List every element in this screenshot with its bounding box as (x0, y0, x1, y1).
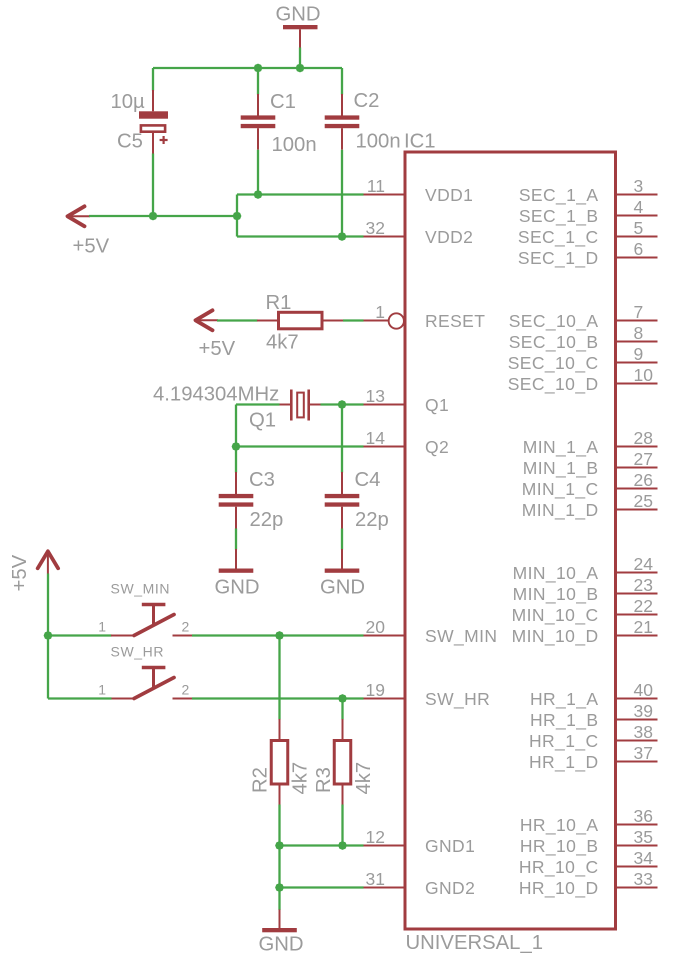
svg-text:1: 1 (98, 619, 106, 635)
svg-text:IC1: IC1 (404, 130, 436, 152)
label R3 value 4k7 (353, 762, 375, 795)
ground C3 GND symbol (219, 549, 254, 573)
pin 34 HR_10_C (right) (519, 848, 658, 878)
pin 5 SEC_1_C (right) (518, 218, 658, 248)
wire GND1 net (280, 844, 364, 846)
pin 39 HR_1_B (right) (530, 701, 658, 731)
wire Q2 net (236, 445, 364, 447)
label bottom GND (259, 934, 304, 956)
svg-text:R1: R1 (266, 292, 292, 314)
svg-text:8: 8 (634, 323, 644, 343)
label IC1 value UNIVERSAL_1 (406, 932, 544, 954)
pin 21 MIN_10_D (right) (512, 617, 658, 647)
svg-text:12: 12 (366, 827, 385, 847)
svg-text:SEC_1_B: SEC_1_B (519, 206, 599, 227)
label R3 name (313, 767, 335, 793)
IC IC1 UNIVERSAL_1 body (405, 152, 616, 929)
svg-text:100n: 100n (356, 131, 401, 153)
pin 10 SEC_10_D (right) (508, 365, 658, 395)
svg-text:MIN_1_B: MIN_1_B (523, 458, 599, 479)
label +5V reset (199, 338, 236, 360)
pin 14 Q2 (left) (364, 428, 450, 457)
label R2 value 4k7 (290, 762, 312, 795)
pin 33 HR_10_D (right) (519, 869, 658, 899)
label SW_MIN pin 2 (182, 619, 190, 635)
wire VDD2 net (237, 235, 364, 237)
label Q1 frequency (153, 384, 279, 406)
svg-text:HR_1_A: HR_1_A (530, 689, 599, 710)
label C4 GND (320, 577, 365, 599)
svg-text:39: 39 (634, 701, 653, 721)
svg-text:23: 23 (634, 575, 653, 595)
junction Q1 / C4 (338, 400, 347, 409)
wire bottom GND drop (278, 888, 280, 911)
svg-text:7: 7 (634, 302, 644, 322)
wire C2 bottom (341, 150, 343, 237)
pin 9 SEC_10_C (right) (508, 344, 658, 374)
svg-text:HR_10_D: HR_10_D (519, 878, 599, 899)
svg-text:SW_HR: SW_HR (425, 689, 490, 710)
crystal Q1 (279, 390, 321, 421)
svg-text:25: 25 (634, 491, 653, 511)
svg-text:MIN_10_D: MIN_10_D (512, 626, 599, 647)
pin 38 HR_1_C (right) (529, 722, 658, 752)
svg-text:38: 38 (634, 722, 653, 742)
wire top supply bus (153, 67, 342, 69)
svg-text:GND: GND (276, 4, 321, 26)
pin 40 HR_1_A (right) (530, 680, 658, 710)
svg-text:GND2: GND2 (425, 878, 475, 898)
svg-text:34: 34 (634, 848, 654, 868)
svg-text:HR_10_A: HR_10_A (520, 815, 599, 836)
pin 1 RESET (left) (364, 302, 486, 331)
svg-text:26: 26 (634, 470, 653, 490)
svg-text:13: 13 (366, 386, 385, 406)
capacitor C4 (325, 472, 360, 529)
capacitor C2 (325, 94, 360, 150)
label C2 value 100n (356, 131, 401, 153)
label C3 value 22p (250, 509, 284, 531)
svg-text:33: 33 (634, 869, 653, 889)
svg-text:1: 1 (98, 682, 106, 698)
label C1 name (270, 91, 296, 113)
svg-text:Q1: Q1 (249, 410, 276, 432)
label SW_HR pin 1 (98, 682, 106, 698)
svg-text:GND: GND (215, 577, 260, 599)
wire RESET right (343, 319, 364, 321)
svg-text:2: 2 (182, 682, 190, 698)
svg-text:HR_1_B: HR_1_B (530, 710, 599, 731)
svg-text:+5V: +5V (199, 338, 236, 360)
ground GND top symbol (283, 25, 318, 48)
svg-text:VDD2: VDD2 (425, 227, 473, 247)
pin 35 HR_10_B (right) (520, 827, 658, 857)
svg-text:SEC_1_C: SEC_1_C (518, 227, 599, 248)
pin 20 SW_MIN (left) (364, 617, 498, 647)
svg-text:GND: GND (259, 934, 304, 956)
svg-text:SEC_10_D: SEC_10_D (508, 374, 599, 395)
svg-text:MIN_1_C: MIN_1_C (522, 479, 599, 500)
wire +5V rail (89, 215, 237, 217)
pin 22 MIN_10_C (right) (512, 596, 658, 626)
wire +5V column (47, 574, 49, 699)
svg-text:10µ: 10µ (111, 91, 146, 113)
label C3 name (249, 469, 275, 491)
svg-text:Q1: Q1 (425, 395, 449, 415)
svg-text:27: 27 (634, 449, 653, 469)
capacitor C3 (219, 472, 254, 529)
svg-text:SEC_10_B: SEC_10_B (509, 332, 599, 353)
label +5V rotated (9, 554, 31, 591)
junction GND2 / bottom gnd (275, 883, 284, 892)
label IC1 name (404, 130, 436, 152)
svg-text:+5V: +5V (73, 236, 110, 258)
svg-text:R3: R3 (313, 767, 335, 793)
svg-text:HR_10_C: HR_10_C (519, 857, 599, 878)
wire SW_MIN feed (48, 634, 112, 636)
pin 7 SEC_10_A (right) (509, 302, 658, 332)
label +5V top (73, 236, 110, 258)
wire C3 bottom (235, 529, 237, 550)
svg-text:28: 28 (634, 428, 653, 448)
wire GND2 net (280, 886, 364, 888)
label SW_MIN pin 1 (98, 619, 106, 635)
svg-text:5: 5 (634, 218, 644, 238)
pin 13 Q1 (left) (364, 386, 450, 415)
wire C4 bottom (341, 529, 343, 550)
svg-text:HR_10_B: HR_10_B (520, 836, 599, 857)
label GND top net (276, 4, 321, 26)
svg-text:20: 20 (366, 617, 386, 637)
svg-text:SW_HR: SW_HR (111, 644, 165, 660)
junction SW_HR / R3 (338, 694, 347, 703)
svg-text:MIN_1_D: MIN_1_D (522, 500, 599, 521)
wire C5 bottom (152, 154, 154, 217)
pin 36 HR_10_A (right) (520, 806, 658, 836)
pin 26 MIN_1_C (right) (522, 470, 658, 500)
wire C1 bottom (257, 150, 259, 195)
pin 6 SEC_1_D (right) (518, 239, 658, 269)
power +5V arrow (switch rail, pointing up) (38, 551, 58, 573)
junction +5V / VDD stem (233, 212, 242, 221)
svg-text:4k7: 4k7 (266, 332, 299, 354)
svg-text:40: 40 (634, 680, 654, 700)
svg-text:HR_1_D: HR_1_D (529, 752, 599, 773)
wire GND drop to bus (299, 48, 301, 69)
pin 28 MIN_1_A (right) (523, 428, 658, 458)
pin 11 VDD1 (left) (364, 176, 474, 205)
svg-text:3: 3 (634, 176, 644, 196)
svg-text:100n: 100n (272, 134, 317, 156)
capacitor C5 (139, 90, 168, 154)
svg-text:SEC_1_A: SEC_1_A (519, 185, 599, 206)
label SW_HR net label (111, 644, 165, 660)
wire R3 bottom (341, 805, 343, 846)
svg-text:9: 9 (634, 344, 644, 364)
svg-text:31: 31 (366, 869, 385, 889)
capacitor C1 (241, 94, 276, 150)
junction +5V / C5 (149, 212, 158, 221)
junction Q2 / C3 (232, 442, 241, 451)
wire Q1 right (321, 403, 364, 405)
label R1 name (266, 292, 292, 314)
pin 31 GND2 (left) (364, 869, 476, 898)
svg-text:4: 4 (634, 197, 644, 217)
label C5 value 10µ (111, 91, 146, 113)
pin 12 GND1 (left) (364, 827, 476, 856)
label R1 value 4k7 (266, 332, 299, 354)
pin 24 MIN_10_A (right) (513, 554, 658, 584)
wire C3 column (235, 405, 237, 473)
pin 32 VDD2 (left) (364, 218, 474, 247)
wire C2 top (341, 68, 343, 95)
label C2 name (354, 90, 380, 112)
resistor R1 (257, 312, 343, 329)
svg-text:GND: GND (320, 577, 365, 599)
wire R2-GND2 link (278, 846, 280, 888)
wire SW_HR net (192, 697, 364, 699)
wire VDD1 net (237, 193, 364, 195)
wire SW_MIN net (192, 634, 364, 636)
svg-text:21: 21 (634, 617, 653, 637)
pin 37 HR_1_D (right) (529, 743, 658, 773)
label C3 GND (215, 577, 260, 599)
junction VDD2 / C2 (338, 232, 347, 241)
switch SW_MIN (111, 605, 192, 636)
svg-text:10: 10 (634, 365, 654, 385)
ground bottom GND symbol (262, 910, 297, 933)
wire C4 column (341, 405, 343, 473)
resistor R3 (334, 719, 351, 805)
label SW_HR pin 2 (182, 682, 190, 698)
junction bus / GND (296, 64, 305, 73)
svg-text:MIN_10_C: MIN_10_C (512, 605, 599, 626)
label R2 name (250, 767, 272, 793)
junction bus / C1 (254, 64, 263, 73)
junction GND1 / R2 (275, 841, 284, 850)
wire SW_HR feed (48, 697, 112, 699)
wire RESET left (217, 319, 258, 321)
ground C4 GND symbol (325, 549, 360, 573)
pin 3 SEC_1_A (right) (519, 176, 658, 206)
junction GND1 / R3 (338, 841, 347, 850)
label Q1 name (249, 410, 276, 432)
wire VDD stem (236, 195, 238, 237)
svg-text:Q2: Q2 (425, 437, 449, 457)
svg-text:MIN_10_A: MIN_10_A (513, 563, 599, 584)
svg-text:14: 14 (366, 428, 386, 448)
svg-text:C1: C1 (270, 91, 296, 113)
svg-text:1: 1 (375, 302, 385, 322)
svg-text:R2: R2 (250, 767, 272, 793)
svg-text:6: 6 (634, 239, 644, 259)
svg-text:22p: 22p (250, 509, 284, 531)
wire C5 top (152, 68, 154, 91)
svg-text:SEC_10_C: SEC_10_C (508, 353, 599, 374)
svg-text:19: 19 (366, 680, 385, 700)
pin 8 SEC_10_B (right) (509, 323, 658, 353)
switch SW_HR (111, 668, 192, 699)
pin 19 SW_HR (left) (364, 680, 491, 710)
svg-text:SW_MIN: SW_MIN (111, 581, 171, 597)
svg-text:4k7: 4k7 (290, 762, 312, 795)
wire C1 top (257, 68, 259, 95)
svg-text:37: 37 (634, 743, 653, 763)
svg-text:GND1: GND1 (425, 836, 475, 856)
svg-text:24: 24 (634, 554, 654, 574)
pin 27 MIN_1_B (right) (523, 449, 658, 479)
svg-text:C5: C5 (117, 131, 143, 153)
svg-text:VDD1: VDD1 (425, 185, 473, 205)
svg-text:11: 11 (367, 176, 385, 196)
svg-text:MIN_1_A: MIN_1_A (523, 437, 599, 458)
label C5 name (117, 131, 143, 153)
svg-text:C3: C3 (249, 469, 275, 491)
label SW_MIN net label (111, 581, 171, 597)
svg-text:35: 35 (634, 827, 653, 847)
svg-text:22: 22 (634, 596, 653, 616)
resistor R2 (271, 719, 288, 805)
svg-text:+5V: +5V (9, 554, 31, 591)
power +5V arrow (RESET pull-up) (196, 310, 219, 330)
pin 4 SEC_1_B (right) (519, 197, 658, 227)
junction VDD1 / C1 (254, 190, 263, 199)
svg-text:C4: C4 (355, 469, 381, 491)
svg-text:UNIVERSAL_1: UNIVERSAL_1 (406, 932, 544, 954)
svg-text:32: 32 (366, 218, 385, 238)
svg-text:SW_MIN: SW_MIN (425, 626, 497, 647)
svg-text:4k7: 4k7 (353, 762, 375, 795)
svg-text:SEC_10_A: SEC_10_A (509, 311, 599, 332)
svg-text:MIN_10_B: MIN_10_B (513, 584, 599, 605)
wire R2 bottom (278, 805, 280, 846)
svg-text:36: 36 (634, 806, 653, 826)
svg-text:2: 2 (182, 619, 190, 635)
junction +5V / SW_MIN (44, 631, 53, 640)
label C4 name (355, 469, 381, 491)
svg-text:HR_1_C: HR_1_C (529, 731, 599, 752)
svg-text:RESET: RESET (425, 311, 485, 331)
label C1 value 100n (272, 134, 317, 156)
svg-text:SEC_1_D: SEC_1_D (518, 248, 599, 269)
power +5V arrow (VDD rail) (68, 206, 91, 226)
svg-text:C2: C2 (354, 90, 380, 112)
wire R3 top (341, 699, 343, 720)
wire Q1 left (236, 403, 280, 405)
pin 25 MIN_1_D (right) (522, 491, 658, 521)
pin 23 MIN_10_B (right) (513, 575, 658, 605)
svg-text:22p: 22p (355, 509, 389, 531)
junction SW_MIN / R2 (275, 631, 284, 640)
wire R2 top (278, 636, 280, 720)
label C4 value 22p (355, 509, 389, 531)
svg-text:4.194304MHz: 4.194304MHz (153, 384, 279, 406)
